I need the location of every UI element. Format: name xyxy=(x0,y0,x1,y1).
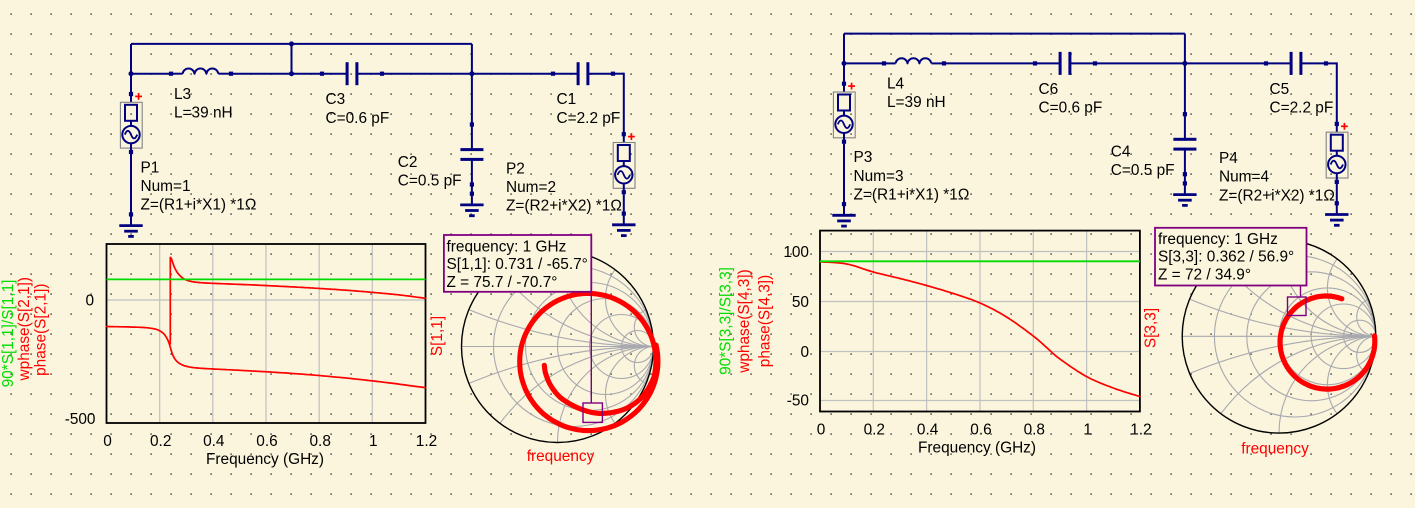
svg-text:C=2.2 pF: C=2.2 pF xyxy=(557,110,621,127)
svg-text:C2: C2 xyxy=(398,154,418,171)
svg-text:0: 0 xyxy=(817,422,826,439)
svg-text:Z=(R2+i*X2) *1Ω: Z=(R2+i*X2) *1Ω xyxy=(1219,187,1335,204)
svg-text:Frequency (GHz): Frequency (GHz) xyxy=(206,451,324,468)
svg-text:L=39 nH: L=39 nH xyxy=(174,104,233,121)
svg-text:frequency: 1 GHz: frequency: 1 GHz xyxy=(1158,231,1278,248)
svg-text:P4: P4 xyxy=(1219,150,1238,167)
svg-text:C=0.5 pF: C=0.5 pF xyxy=(398,173,462,190)
svg-text:phase(S[2,1]): phase(S[2,1]) xyxy=(33,283,50,375)
svg-text:0.4: 0.4 xyxy=(917,422,939,439)
svg-text:1: 1 xyxy=(369,433,378,450)
svg-text:0.4: 0.4 xyxy=(203,433,225,450)
svg-text:0: 0 xyxy=(103,433,112,450)
svg-text:Num=3: Num=3 xyxy=(854,168,904,185)
svg-text:P3: P3 xyxy=(854,149,873,166)
svg-text:S[3,3]: S[3,3] xyxy=(1143,308,1160,348)
svg-text:wphase(S[2,1]): wphase(S[2,1]) xyxy=(16,277,33,382)
svg-text:P1: P1 xyxy=(141,160,160,177)
svg-text:0.8: 0.8 xyxy=(1024,422,1045,439)
svg-text:90*S[3,3]/S[3,3]: 90*S[3,3]/S[3,3] xyxy=(718,267,735,375)
svg-text:50: 50 xyxy=(792,294,809,311)
svg-text:Z=(R1+i*X1) *1Ω: Z=(R1+i*X1) *1Ω xyxy=(854,186,970,203)
svg-text:Z=(R1+i*X1) *1Ω: Z=(R1+i*X1) *1Ω xyxy=(141,197,257,214)
svg-text:C5: C5 xyxy=(1270,81,1290,98)
svg-text:C=2.2 pF: C=2.2 pF xyxy=(1270,100,1334,117)
svg-text:L=39 nH: L=39 nH xyxy=(887,94,946,111)
svg-text:-500: -500 xyxy=(65,411,96,428)
svg-text:C1: C1 xyxy=(557,91,577,108)
svg-text:1.2: 1.2 xyxy=(416,433,437,450)
svg-text:C6: C6 xyxy=(1039,81,1059,98)
svg-text:90*S[1,1]/S[1,1]: 90*S[1,1]/S[1,1] xyxy=(0,280,17,388)
svg-text:0.2: 0.2 xyxy=(864,422,885,439)
svg-text:C4: C4 xyxy=(1111,144,1131,161)
svg-text:100: 100 xyxy=(783,244,809,261)
svg-text:P2: P2 xyxy=(506,160,525,177)
svg-text:1.2: 1.2 xyxy=(1130,422,1151,439)
svg-text:0.8: 0.8 xyxy=(309,433,330,450)
svg-text:L4: L4 xyxy=(887,76,905,93)
svg-text:Z = 72 / 34.9°: Z = 72 / 34.9° xyxy=(1158,267,1251,284)
svg-text:frequency: frequency xyxy=(1241,441,1309,458)
svg-text:wphase(S[4,3]): wphase(S[4,3]) xyxy=(736,269,753,374)
svg-text:L3: L3 xyxy=(174,86,191,103)
svg-text:S[3,3]: 0.362 / 56.9°: S[3,3]: 0.362 / 56.9° xyxy=(1158,249,1294,266)
svg-text:frequency: 1 GHz: frequency: 1 GHz xyxy=(447,238,567,255)
svg-text:1: 1 xyxy=(1083,422,1092,439)
svg-text:phase(S[4,3]): phase(S[4,3]) xyxy=(757,275,774,367)
svg-text:-50: -50 xyxy=(787,392,809,409)
svg-text:frequency: frequency xyxy=(527,448,595,465)
svg-text:C3: C3 xyxy=(326,91,346,108)
svg-text:0.2: 0.2 xyxy=(150,433,171,450)
svg-text:Num=1: Num=1 xyxy=(141,178,191,195)
svg-text:0.6: 0.6 xyxy=(970,422,991,439)
svg-text:C=0.6 pF: C=0.6 pF xyxy=(326,110,390,127)
svg-text:C=0.5 pF: C=0.5 pF xyxy=(1111,162,1175,179)
svg-text:0.6: 0.6 xyxy=(256,433,277,450)
svg-text:C=0.6 pF: C=0.6 pF xyxy=(1039,100,1103,117)
svg-text:S[1,1]: S[1,1] xyxy=(429,316,446,356)
svg-text:S[1,1]: 0.731 / -65.7°: S[1,1]: 0.731 / -65.7° xyxy=(447,256,588,273)
svg-text:Num=4: Num=4 xyxy=(1219,169,1269,186)
svg-text:Num=2: Num=2 xyxy=(506,179,556,196)
svg-text:0: 0 xyxy=(85,293,94,310)
svg-text:0: 0 xyxy=(800,344,809,361)
svg-text:Z = 75.7 / -70.7°: Z = 75.7 / -70.7° xyxy=(447,274,558,291)
svg-text:Frequency (GHz): Frequency (GHz) xyxy=(918,440,1036,457)
svg-text:Z=(R2+i*X2) *1Ω: Z=(R2+i*X2) *1Ω xyxy=(506,198,622,215)
